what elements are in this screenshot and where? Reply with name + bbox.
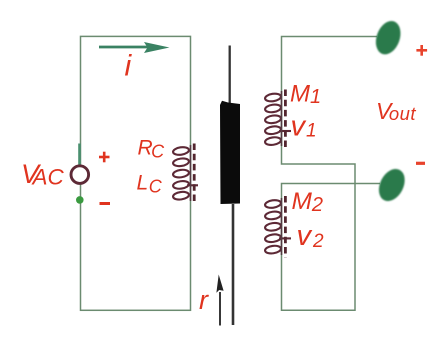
svg-text:v1: v1 (291, 111, 317, 143)
svg-text:r: r (199, 285, 209, 315)
svg-text:M2: M2 (292, 188, 324, 216)
svg-text:v2: v2 (297, 220, 325, 252)
svg-text:M1: M1 (290, 81, 321, 109)
svg-text:AC: AC (31, 164, 65, 189)
svg-text:i: i (125, 50, 133, 83)
svg-text:RC: RC (138, 137, 166, 162)
svg-text:LC: LC (137, 172, 163, 197)
svg-text:Vout: Vout (376, 98, 416, 124)
